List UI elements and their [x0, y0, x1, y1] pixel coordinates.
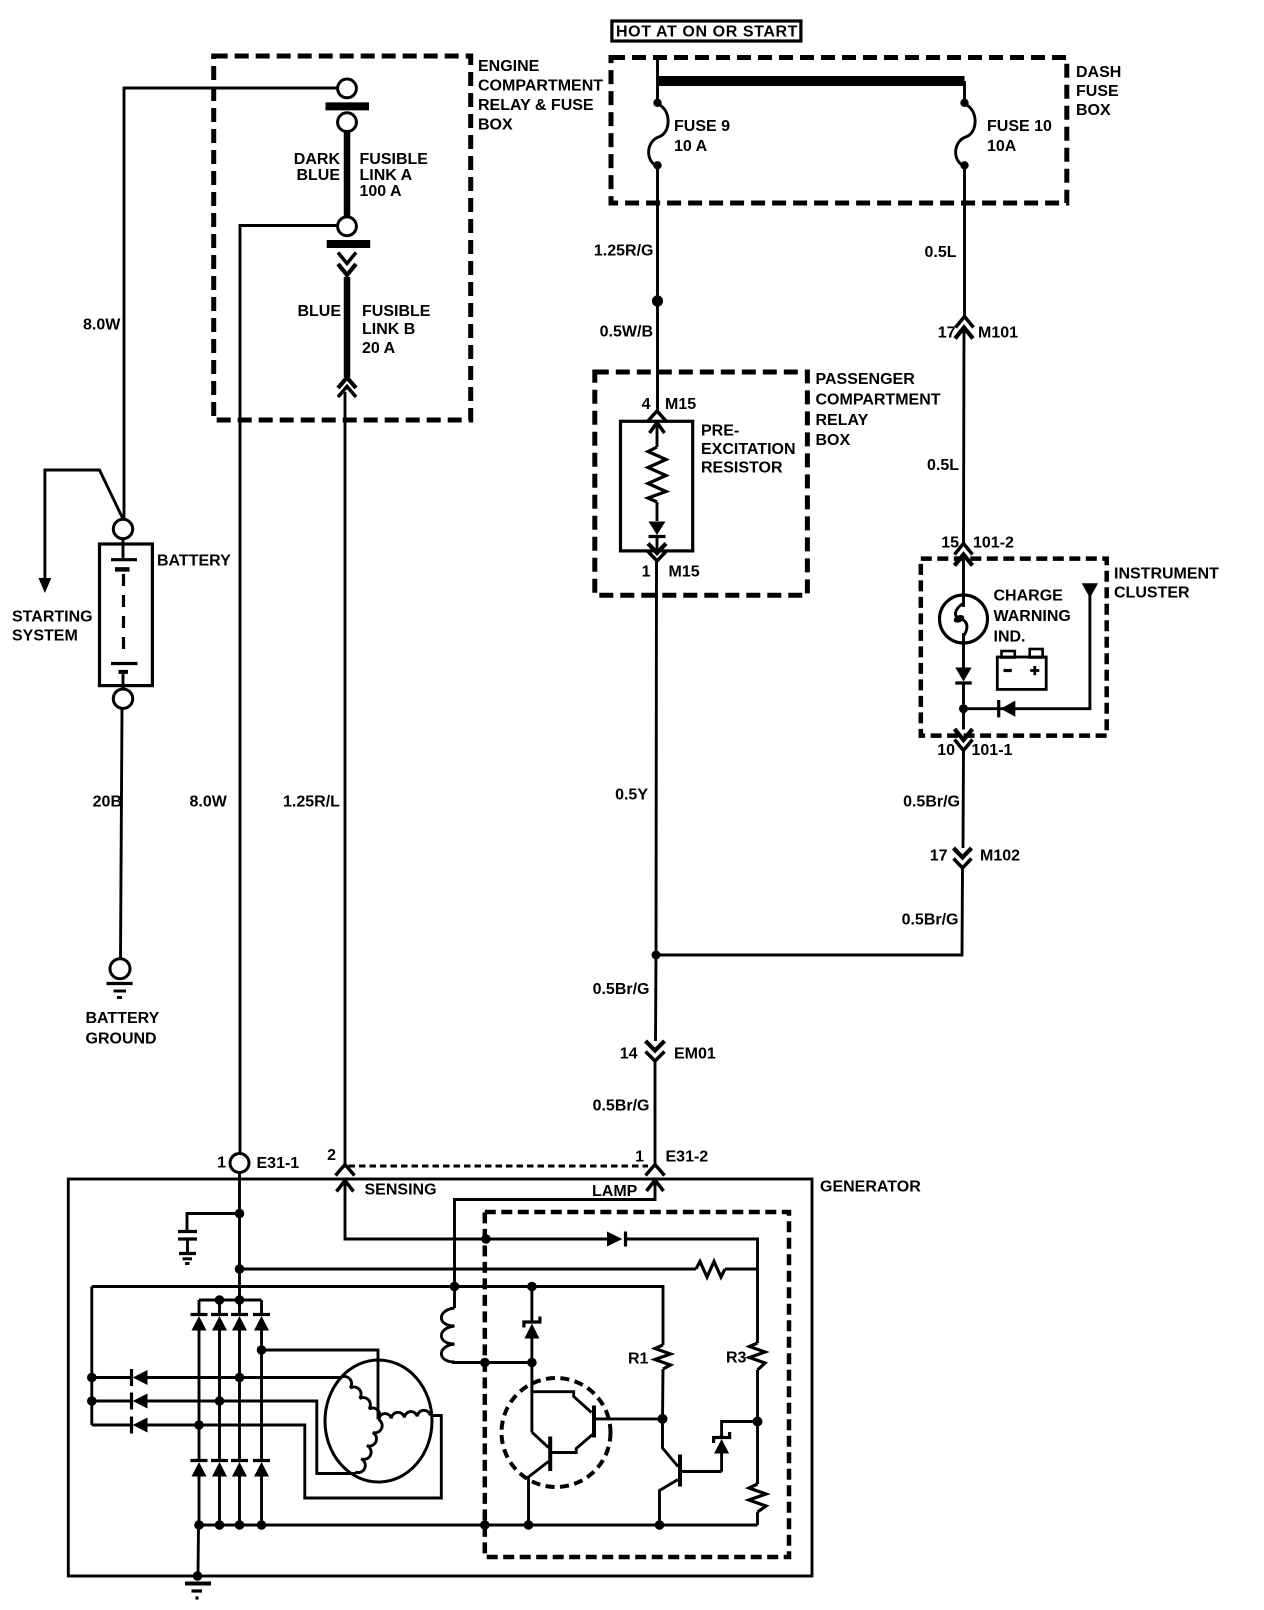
battery plate long (top): [111, 558, 137, 561]
svg-text:BATTERY: BATTERY: [157, 553, 231, 570]
svg-text:STARTING: STARTING: [12, 609, 93, 626]
dashed boundary line between connectors: [349, 1165, 649, 1168]
T1 output to R1 junction: [594, 1417, 663, 1420]
junction dot capacitor tap: [235, 1209, 245, 1219]
svg-text:E31-1: E31-1: [257, 1155, 300, 1172]
charge warning indicator bulb: [940, 595, 988, 643]
junction dot bus at regulator border: [480, 1520, 490, 1530]
battery top plate stub: [122, 539, 125, 559]
svg-text:BOX: BOX: [1076, 102, 1111, 119]
ground symbol capacitor: [179, 1252, 196, 1255]
pre-excitation resistor box: [621, 421, 693, 551]
wire R1 bottom to junction: [661, 1369, 664, 1419]
wire feed to bus: [656, 58, 659, 82]
svg-text:M15: M15: [669, 564, 700, 581]
svg-text:M102: M102: [980, 848, 1020, 865]
box INSTRUMENT CLUSTER (dashed): [921, 559, 1107, 736]
capacitor ground stub: [186, 1239, 189, 1253]
fusible link B element (thick): [344, 277, 351, 377]
svg-text:8.0W: 8.0W: [190, 794, 228, 811]
wire 0.5W/B: [656, 301, 659, 411]
wire line3 excitation bus: [92, 1287, 663, 1346]
battery dashed middle: [122, 574, 125, 657]
connector 101-1 chevrons: [955, 729, 973, 740]
svg-text:15: 15: [941, 535, 959, 552]
junction dot bus c2: [215, 1295, 225, 1305]
bypass diode branch wire: [964, 594, 1090, 709]
junction dot row B phase: [215, 1396, 225, 1406]
wire line2 B+ to R2: [240, 1268, 697, 1271]
arrow into cluster branch: [1082, 583, 1098, 598]
junction dot T1 emitter at bus: [524, 1520, 534, 1530]
wire bulb to diode: [962, 633, 965, 668]
connector E31-2 chevron: [646, 1165, 665, 1176]
wire to starting system: [45, 470, 123, 580]
T2 base lead to zener: [680, 1470, 722, 1473]
svg-text:PASSENGER: PASSENGER: [816, 371, 916, 388]
junction dot in cluster: [959, 704, 968, 713]
svg-text:INSTRUMENT: INSTRUMENT: [1114, 566, 1219, 583]
wire resistor to diode: [656, 502, 659, 521]
box GENERATOR: [68, 1179, 812, 1576]
zener diode D2 (surge): [530, 1287, 533, 1323]
junction dot R3 zener: [753, 1417, 763, 1427]
rectifier diode c4 bottom: [253, 1459, 270, 1462]
rectifier diode c1 top: [198, 1300, 201, 1315]
svg-text:RELAY & FUSE: RELAY & FUSE: [478, 97, 594, 114]
svg-text:BOX: BOX: [816, 432, 851, 449]
junction dot left column row A: [87, 1373, 97, 1383]
battery box: [100, 544, 153, 686]
wire 1.25R/G: [656, 165, 659, 301]
diode trio row C wire: [92, 1424, 132, 1427]
T1 lower emitter to ground bus: [529, 1462, 549, 1526]
svg-text:0.5Y: 0.5Y: [615, 787, 648, 804]
svg-text:M101: M101: [978, 325, 1018, 342]
svg-text:0.5Br/G: 0.5Br/G: [593, 1098, 650, 1115]
svg-text:EXCITATION: EXCITATION: [701, 441, 796, 458]
svg-text:0.5W/B: 0.5W/B: [600, 324, 653, 341]
wire sensing line into regulator: [345, 1181, 607, 1240]
junction dot zener top on excitation bus: [527, 1282, 537, 1292]
junction dot row A phase: [235, 1373, 245, 1383]
wire into bulb: [962, 555, 965, 608]
fusible link A top terminal circle: [338, 79, 357, 98]
svg-text:BOX: BOX: [478, 117, 513, 134]
wire 0.5L below fuse 10: [963, 165, 966, 317]
svg-text:HOT AT ON OR START: HOT AT ON OR START: [616, 24, 798, 41]
T2 emitter to ground bus: [660, 1480, 679, 1526]
wire 0.5Y down to junction: [655, 561, 658, 955]
wire 20B battery to ground: [121, 708, 123, 958]
rectifier diode c3 bottom: [231, 1459, 248, 1462]
rectifier diode c1 bottom: [191, 1459, 208, 1462]
zener diode D3: [720, 1454, 723, 1472]
rectifier diode c3 top: [238, 1300, 241, 1315]
stator winding A coil: [341, 1376, 380, 1419]
resistor R3: [750, 1343, 766, 1370]
bus bar in dash fuse box (thick): [658, 76, 965, 86]
svg-text:FUSE: FUSE: [1076, 83, 1119, 100]
junction dot left column row B: [87, 1396, 97, 1406]
connector E31-1 ring: [230, 1154, 249, 1173]
diode trio row A wire: [92, 1376, 132, 1379]
junction dot R1 T1 T2: [658, 1414, 668, 1424]
svg-text:1.25R/G: 1.25R/G: [594, 243, 654, 260]
wire diode to connector: [656, 537, 659, 553]
svg-text:101-1: 101-1: [972, 742, 1013, 759]
fusible link B top bar: [327, 240, 371, 248]
junction dot bus c3: [235, 1295, 245, 1305]
svg-text:BLUE: BLUE: [296, 167, 340, 184]
stator winding B coil: [379, 1410, 431, 1419]
neutral wire to stator center: [262, 1350, 379, 1419]
phase column c1: [198, 1331, 201, 1462]
connector M102 chevrons: [954, 848, 972, 858]
junction dot generator ground: [193, 1571, 203, 1581]
diode below bulb: [955, 668, 971, 682]
wire diode to R3 column: [626, 1239, 758, 1343]
box DASH FUSE BOX (dashed): [611, 58, 1067, 204]
wire field coil bottom to T1 collector line: [452, 1361, 532, 1364]
connector 101-2 chevrons: [955, 544, 973, 555]
connector chevrons at link B bottom: [338, 378, 356, 389]
svg-text:COMPARTMENT: COMPARTMENT: [478, 78, 603, 95]
T1 lower collector diagonal: [532, 1432, 549, 1447]
svg-text:100 A: 100 A: [360, 183, 403, 200]
svg-text:ENGINE: ENGINE: [478, 58, 540, 75]
wire 0.5Br/G to E31-2: [654, 1061, 657, 1164]
fusible link A top bar: [326, 102, 370, 110]
resistor R2: [696, 1262, 725, 1278]
svg-text:1.25R/L: 1.25R/L: [283, 794, 340, 811]
svg-text:1: 1: [217, 1155, 226, 1172]
svg-text:10A: 10A: [987, 138, 1017, 155]
ground symbol generator: [185, 1582, 211, 1586]
svg-text:0.5L: 0.5L: [924, 244, 956, 261]
svg-text:17: 17: [938, 325, 956, 342]
svg-text:0.5Br/G: 0.5Br/G: [593, 981, 650, 998]
ground bus: [199, 1524, 758, 1527]
field coil: [453, 1287, 456, 1309]
T1 base line top: [532, 1392, 592, 1413]
wire R4 to ground bus: [756, 1512, 759, 1525]
resistor R4: [749, 1484, 766, 1512]
svg-text:LINK A: LINK A: [360, 167, 413, 184]
wire R3 to R4: [756, 1370, 759, 1484]
stator winding C coil: [355, 1419, 382, 1472]
wire 0.5L to instrument cluster: [962, 328, 965, 545]
svg-text:DARK: DARK: [294, 151, 341, 168]
battery bottom terminal circle: [113, 689, 132, 708]
svg-text:10 A: 10 A: [674, 138, 708, 155]
diode in pre-excitation box: [649, 522, 666, 536]
battery plate long (bottom): [111, 662, 138, 665]
svg-text:FUSIBLE: FUSIBLE: [362, 303, 431, 320]
wire R2 to R3 column: [725, 1268, 758, 1271]
T1 upper emitter to lower base: [552, 1435, 593, 1453]
svg-text:WARNING: WARNING: [994, 608, 1071, 625]
arrow sensing into generator: [337, 1181, 354, 1192]
svg-text:FUSE 10: FUSE 10: [987, 118, 1052, 135]
svg-text:FUSE 9: FUSE 9: [674, 118, 730, 135]
junction dots ground bus: [194, 1520, 204, 1530]
svg-text:RESISTOR: RESISTOR: [701, 460, 783, 477]
svg-text:0.5Br/G: 0.5Br/G: [903, 794, 960, 811]
fusible link A lower terminal circle: [338, 113, 357, 132]
bypass diode (points left): [1001, 701, 1016, 717]
stator winding circle: [325, 1360, 432, 1482]
label box HOT AT ON OR START: [612, 21, 801, 41]
connector M15 top chevron: [648, 411, 667, 422]
junction dot row C phase: [194, 1420, 204, 1430]
diode trio row B wire: [92, 1400, 132, 1403]
resistor pre-excitation zigzag: [648, 447, 666, 502]
junction splice dot: [652, 295, 663, 306]
battery ground terminal circle: [110, 959, 130, 979]
connector M101 chevrons: [956, 317, 974, 328]
svg-text:1: 1: [635, 1149, 644, 1166]
phase column c2: [218, 1331, 221, 1462]
wire zener top to R3 junction: [722, 1422, 758, 1438]
wire diode to junction: [962, 683, 965, 730]
T1 upper transistor bar: [592, 1406, 596, 1438]
svg-text:IND.: IND.: [994, 629, 1026, 646]
svg-text:SYSTEM: SYSTEM: [12, 628, 78, 645]
junction dot neutral c4: [257, 1345, 267, 1355]
connector 2 chevron: [336, 1165, 355, 1176]
T2 collector path: [663, 1419, 679, 1467]
svg-text:20 A: 20 A: [362, 340, 396, 357]
svg-text:EM01: EM01: [674, 1046, 716, 1063]
fuse 9: [656, 81, 659, 104]
svg-text:SENSING: SENSING: [365, 1182, 437, 1199]
battery symbol icon: [997, 657, 1046, 689]
diode sensing (points right): [607, 1232, 622, 1247]
svg-text:CLUSTER: CLUSTER: [1114, 585, 1190, 602]
wire 0.5Br/G to EM01: [654, 955, 657, 1041]
svg-text:E31-2: E31-2: [666, 1149, 709, 1166]
battery top terminal circle: [113, 519, 132, 538]
svg-text:1: 1: [642, 564, 651, 581]
junction dot sensing at regulator border: [481, 1234, 491, 1244]
wire 8.0W fusible link A bottom to E31-1: [240, 226, 338, 1154]
svg-text:DASH: DASH: [1076, 64, 1121, 81]
wire 8.0W from battery column to fusible link A: [124, 88, 338, 519]
svg-text:LAMP: LAMP: [592, 1183, 638, 1200]
battery plate short (top): [115, 567, 130, 572]
connector chevrons below link B bar: [338, 253, 356, 264]
svg-text:R1: R1: [628, 1351, 649, 1368]
junction dot coil line to T1: [527, 1358, 537, 1368]
junction dot at regulator border on coil line: [480, 1358, 490, 1368]
svg-text:LINK B: LINK B: [362, 321, 415, 338]
svg-text:PRE-: PRE-: [701, 423, 739, 440]
svg-text:FUSIBLE: FUSIBLE: [360, 151, 429, 168]
svg-text:4: 4: [642, 396, 651, 413]
arrow starting system: [39, 578, 52, 593]
rectifier diode c2 bottom: [211, 1459, 228, 1462]
svg-text:CHARGE: CHARGE: [994, 588, 1064, 605]
svg-text:BATTERY: BATTERY: [86, 1010, 160, 1027]
junction dot T2 emitter at bus: [655, 1520, 665, 1530]
wire 0.5Br/G to M102: [962, 751, 965, 849]
rectifier diode c2 top: [218, 1300, 221, 1315]
transistor T2 bar: [678, 1455, 682, 1487]
battery bottom stub: [122, 672, 125, 689]
capacitor branch wire: [187, 1214, 240, 1231]
fuse 10: [963, 81, 966, 104]
svg-text:10: 10: [937, 742, 955, 759]
T1 lower transistor bar: [548, 1437, 552, 1472]
svg-text:RELAY: RELAY: [816, 412, 869, 429]
rectifier top bus: [199, 1299, 262, 1302]
wire main B+ into generator: [238, 1173, 241, 1301]
svg-text:8.0W: 8.0W: [83, 317, 121, 334]
arrow entering resistor: [650, 423, 665, 434]
fusible link A element (thick): [344, 132, 351, 217]
svg-text:GENERATOR: GENERATOR: [820, 1179, 921, 1196]
fusible link A bottom circle: [338, 217, 357, 236]
box PASSENGER COMPARTMENT RELAY BOX (dashed): [595, 372, 808, 595]
junction dot 0.5Br/G: [652, 951, 661, 960]
svg-text:0.5Br/G: 0.5Br/G: [902, 912, 959, 929]
ground symbol battery: [107, 982, 133, 985]
phase column c4: [260, 1331, 263, 1462]
svg-text:R3: R3: [726, 1350, 747, 1367]
connector M15 bottom chevrons: [648, 544, 666, 554]
wire lamp line into regulator: [455, 1181, 656, 1287]
rectifier diode c4 top: [260, 1300, 263, 1315]
capacitor plates: [178, 1230, 197, 1233]
junction dot B+ distribution: [235, 1264, 245, 1274]
wire bus to generator ground: [197, 1525, 200, 1576]
junction dot lamp to excitation bus and field coil: [450, 1282, 460, 1292]
transistor T1 darlington (dashed circle): [502, 1378, 611, 1487]
svg-text:101-2: 101-2: [973, 535, 1014, 552]
svg-text:M15: M15: [665, 396, 696, 413]
phase column c3: [238, 1331, 241, 1462]
svg-text:2: 2: [327, 1147, 336, 1164]
svg-text:14: 14: [620, 1046, 638, 1063]
battery plate short (bottom): [119, 670, 129, 674]
svg-text:COMPARTMENT: COMPARTMENT: [816, 392, 941, 409]
wire zener to T1: [530, 1339, 533, 1433]
box voltage regulator (dashed): [485, 1212, 789, 1557]
wire 0.5Br/G M102 down and left to junction: [656, 868, 963, 955]
connector EM01 chevrons: [646, 1041, 665, 1051]
svg-text:BLUE: BLUE: [297, 303, 341, 320]
arrow lamp into generator: [647, 1180, 664, 1191]
box ENGINE COMPARTMENT RELAY & FUSE BOX (dashed): [214, 56, 471, 420]
svg-text:GROUND: GROUND: [86, 1031, 157, 1048]
svg-text:17: 17: [930, 848, 948, 865]
wire left column: [90, 1287, 93, 1426]
svg-text:0.5L: 0.5L: [927, 457, 959, 474]
resistor R1: [655, 1345, 671, 1369]
svg-text:20B: 20B: [93, 794, 122, 811]
wire 1.25R/L link B down to generator connector 2: [344, 392, 347, 1164]
